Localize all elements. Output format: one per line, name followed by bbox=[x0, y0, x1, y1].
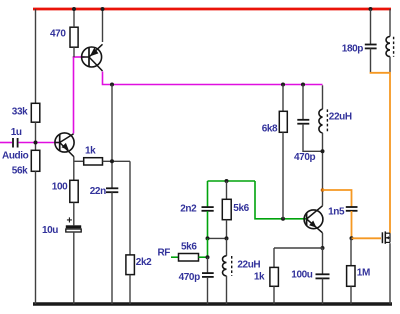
resistor 5k6 vertical bbox=[222, 181, 249, 238]
svg-text:2n2: 2n2 bbox=[180, 203, 197, 214]
svg-text:33k: 33k bbox=[12, 106, 28, 117]
svg-text:22n: 22n bbox=[90, 186, 106, 197]
svg-text:100u: 100u bbox=[291, 270, 312, 281]
node gate junction bbox=[350, 236, 354, 240]
wire 22n to ground bbox=[111, 192, 113, 304]
capacitor 1n5 bbox=[328, 206, 357, 217]
node 5k6 bottom bbox=[225, 236, 229, 240]
wire green right to Q3 base bbox=[255, 181, 307, 219]
wire gate (orange) bbox=[352, 237, 382, 239]
wire audio input (magenta) bbox=[0, 142, 12, 144]
node 2n2 bottom bbox=[206, 236, 210, 240]
wire tank to drain (orange) bbox=[371, 72, 391, 233]
wire feedback vertical bbox=[111, 85, 113, 189]
node collector tap bbox=[321, 188, 325, 192]
wire 5k6 RF to node (green) bbox=[199, 256, 208, 258]
node bias divider junction bbox=[34, 141, 38, 145]
svg-text:470: 470 bbox=[50, 29, 66, 40]
svg-text:100: 100 bbox=[52, 182, 68, 193]
wire 33k to 56k bbox=[35, 122, 37, 150]
wire emitter to 1k bbox=[274, 247, 323, 249]
node 470p top branch bbox=[301, 83, 305, 87]
wire V+ rail (red) bbox=[33, 8, 391, 11]
resistor 33k bbox=[12, 103, 40, 122]
svg-text:22uH: 22uH bbox=[329, 112, 352, 123]
label RF bbox=[157, 248, 170, 259]
wire 470 bottom bbox=[73, 47, 75, 57]
transistor Q3 bbox=[304, 206, 323, 233]
svg-text:10u: 10u bbox=[42, 225, 58, 236]
wire 100 to 10u bbox=[73, 202, 75, 225]
wire oscillator top (green) bbox=[208, 180, 256, 182]
wire 56k to ground bbox=[35, 171, 37, 304]
svg-text:1u: 1u bbox=[11, 127, 22, 138]
wire Q2 emitter down bbox=[73, 157, 75, 181]
capacitor 180p bbox=[342, 9, 377, 72]
resistor 1k right bbox=[254, 248, 279, 304]
wire Q1 emitter to rail bbox=[102, 9, 104, 42]
wire 10u to ground bbox=[73, 232, 75, 304]
ground bbox=[33, 302, 392, 305]
capacitor 10u bbox=[42, 215, 81, 236]
node 5k6 top bbox=[225, 179, 229, 183]
resistor 1M bbox=[347, 238, 370, 304]
wire 1n5 to gate node (orange) bbox=[351, 211, 353, 238]
svg-text:180p: 180p bbox=[342, 44, 363, 55]
capacitor 470p bottom bbox=[179, 257, 214, 304]
svg-text:1k: 1k bbox=[85, 145, 96, 156]
node 6k8 top bbox=[281, 83, 285, 87]
svg-text:6k8: 6k8 bbox=[262, 123, 278, 134]
wire Q1 collector down (magenta) bbox=[103, 72, 323, 85]
wire 1u to Q2 base (magenta) bbox=[19, 142, 60, 144]
inductor antenna coil bbox=[386, 9, 394, 72]
wire left rail top bbox=[35, 9, 37, 103]
resistor 2k2 bbox=[126, 255, 152, 275]
wire RF out (green) bbox=[171, 256, 179, 258]
svg-text:5k6: 5k6 bbox=[233, 203, 249, 214]
svg-text:1M: 1M bbox=[357, 267, 370, 278]
svg-text:470p: 470p bbox=[294, 152, 315, 163]
capacitor 100u bbox=[291, 248, 329, 304]
wire to 2k2 bbox=[129, 161, 131, 255]
node feedback line junction bbox=[110, 83, 114, 87]
wire mosfet source to ground bbox=[389, 243, 391, 304]
capacitor 22n bbox=[90, 186, 119, 197]
capacitor 470p top bbox=[294, 85, 323, 164]
resistor 56k bbox=[12, 150, 40, 176]
resistor 470 bbox=[50, 27, 78, 47]
resistor 1k emitter Q2 bbox=[74, 145, 130, 165]
wire Q2 collector to Q1 base (magenta) bbox=[73, 56, 85, 133]
resistor 100 bbox=[52, 180, 78, 202]
node 6k8 bottom bbox=[281, 217, 285, 221]
node 470 at rail bbox=[72, 7, 76, 11]
svg-text:5k6: 5k6 bbox=[181, 241, 197, 252]
svg-text:+: + bbox=[67, 215, 73, 226]
node 180p at rail bbox=[369, 7, 373, 11]
transistor M1 mosfet bbox=[382, 231, 390, 243]
capacitor 2n2 bbox=[180, 181, 213, 238]
wire 470 top bbox=[73, 9, 75, 27]
resistor 6k8 bbox=[262, 85, 288, 219]
svg-text:1n5: 1n5 bbox=[328, 206, 345, 217]
svg-text:2k2: 2k2 bbox=[136, 257, 152, 268]
node Q1 at rail bbox=[101, 7, 105, 11]
wire 2k2 to ground bbox=[129, 275, 131, 304]
node RF junction bbox=[206, 255, 210, 259]
inductor 22uH top bbox=[319, 85, 352, 206]
node Q3 emitter junction bbox=[321, 246, 325, 250]
svg-text:RF: RF bbox=[157, 248, 170, 259]
svg-text:22uH: 22uH bbox=[237, 259, 260, 270]
wire collector tap to 1n5 (orange) bbox=[323, 190, 352, 207]
inductor 22uH bottom bbox=[222, 238, 260, 304]
capacitor 1u bbox=[2, 127, 29, 161]
svg-text:1k: 1k bbox=[254, 271, 265, 282]
node 1k / 22n line bbox=[110, 159, 114, 163]
node tank bottom bbox=[321, 149, 325, 153]
resistor 5k6 RF bbox=[179, 241, 199, 261]
svg-text:Audio: Audio bbox=[2, 150, 29, 161]
transistor Q1 bbox=[82, 44, 103, 71]
svg-text:56k: 56k bbox=[12, 165, 28, 176]
wire Q3 emitter down bbox=[322, 233, 324, 248]
svg-text:470p: 470p bbox=[179, 272, 200, 283]
transistor Q2 bbox=[55, 133, 74, 157]
wire 2n2 to 5k6 bottom bbox=[208, 237, 227, 239]
wire node down green bbox=[207, 238, 209, 257]
